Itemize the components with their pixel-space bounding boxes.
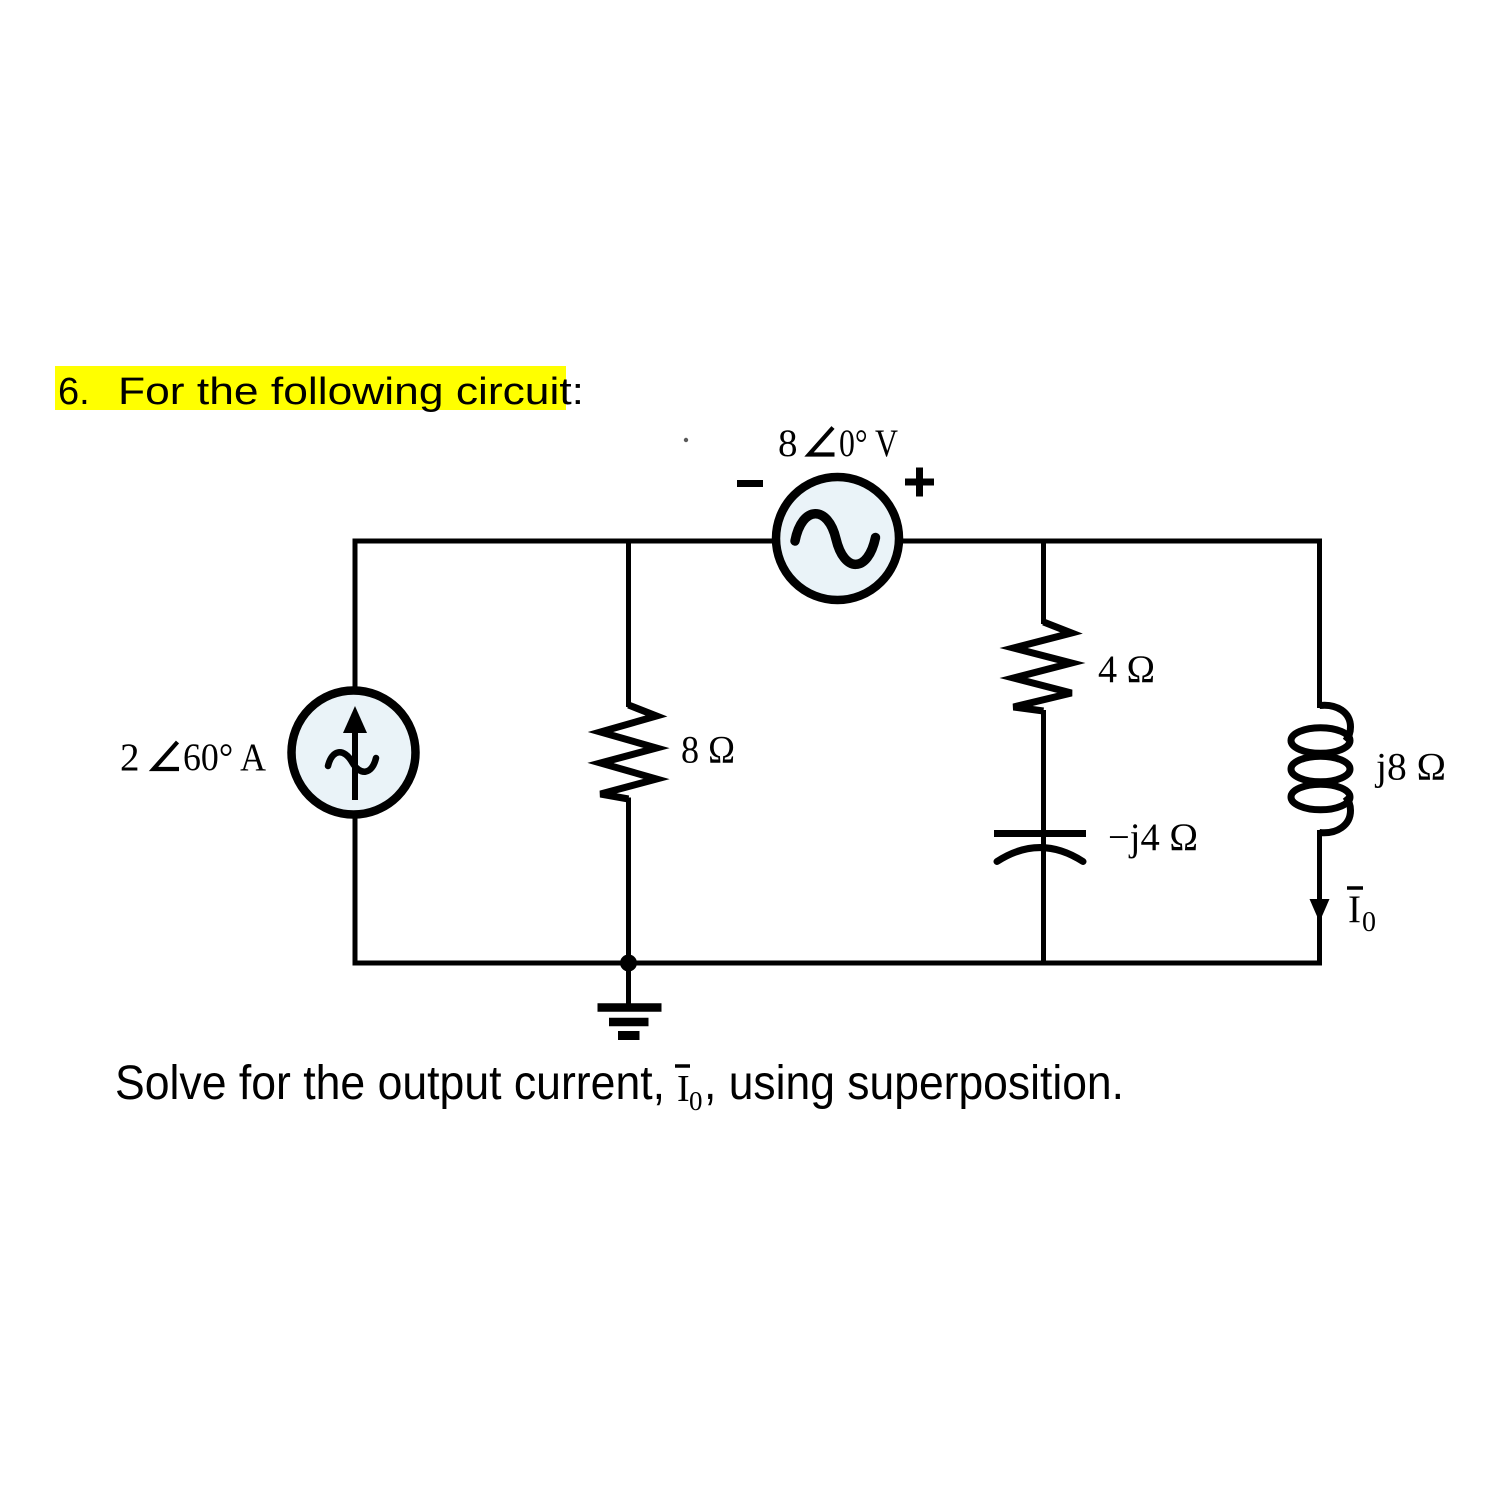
svg-text:I: I	[1348, 888, 1361, 931]
voltage source sine wave	[795, 514, 876, 565]
ground junction dot	[620, 955, 637, 972]
angle symbol of voltage label	[809, 428, 835, 455]
wire resistor 8ohm branch bottom	[626, 798, 631, 964]
inductor L loop 2	[1291, 756, 1350, 782]
svg-text:4 Ω: 4 Ω	[1098, 648, 1155, 691]
wire 4ohm capacitor branch	[1041, 541, 1046, 624]
svg-text:For the following circuit:: For the following circuit:	[118, 371, 584, 413]
stray dot	[684, 438, 688, 442]
svg-text:0: 0	[1362, 907, 1376, 938]
wire top rail	[353, 539, 1323, 544]
capacitor C bottom curved plate	[997, 848, 1083, 862]
svg-text:8: 8	[778, 422, 798, 465]
svg-text:, using superposition.: , using superposition.	[704, 1057, 1124, 1110]
minus sign	[737, 480, 763, 487]
voltage source V circle	[776, 477, 899, 600]
wire left branch	[353, 539, 358, 966]
svg-text:8 Ω: 8 Ω	[681, 729, 735, 772]
label Io bar	[1347, 886, 1363, 890]
capacitor C top plate	[994, 830, 1086, 837]
ground bar 3	[618, 1031, 640, 1040]
svg-text:60° A: 60° A	[183, 736, 266, 779]
inductor L loop 3	[1291, 784, 1350, 810]
bottom Io bar	[675, 1064, 690, 1068]
wire resistor 8ohm branch top	[626, 541, 631, 707]
ground stub	[626, 963, 631, 1005]
inductor L top hook	[1320, 705, 1351, 741]
svg-text:−j4 Ω: −j4 Ω	[1108, 816, 1198, 859]
svg-text:j8 Ω: j8 Ω	[1374, 746, 1446, 789]
inductor L bottom hook	[1320, 797, 1351, 833]
wire bottom rail	[353, 961, 1323, 966]
svg-text:2: 2	[120, 736, 140, 779]
ground bar 2	[609, 1018, 649, 1027]
wire inductor branch bottom	[1317, 830, 1322, 963]
svg-text:Solve for the output current,: Solve for the output current,	[115, 1057, 665, 1110]
wire inductor branch top	[1317, 541, 1322, 708]
svg-text:6.: 6.	[58, 371, 90, 413]
highlight band	[55, 366, 566, 410]
ground bar 1	[598, 1003, 662, 1012]
svg-text:0° V: 0° V	[839, 422, 898, 465]
current arrow Io head	[1310, 899, 1330, 922]
svg-text:I: I	[677, 1068, 690, 1110]
resistor R 8ohm zigzag	[601, 705, 657, 799]
current source arrow head	[343, 706, 367, 733]
wire between 4ohm and capacitor	[1041, 710, 1046, 963]
inductor L loop 1	[1291, 728, 1350, 754]
current source arrow shaft	[352, 724, 358, 800]
angle symbol of current label	[154, 742, 180, 769]
plus sign	[905, 479, 934, 486]
svg-text:0: 0	[689, 1086, 703, 1116]
current source squiggle	[328, 752, 376, 771]
resistor R 4ohm zigzag	[1014, 622, 1072, 711]
current source I circle	[292, 691, 416, 815]
